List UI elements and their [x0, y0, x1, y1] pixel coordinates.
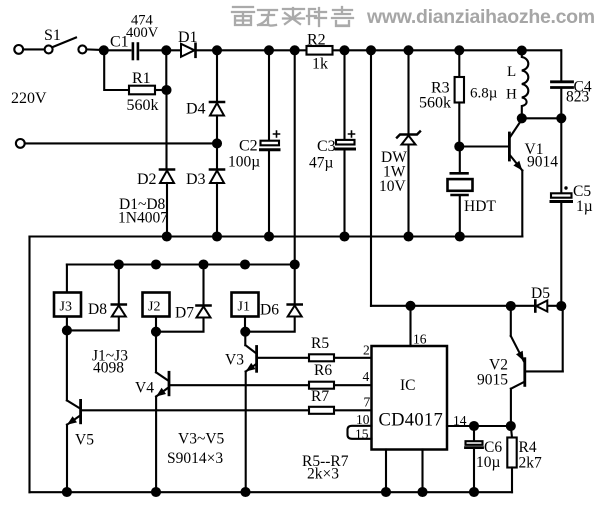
transistor V1 9014 — [508, 133, 511, 160]
diode D1 — [166, 49, 561, 51]
svg-text:D4: D4 — [186, 101, 206, 118]
node D1-D4 — [213, 46, 221, 54]
svg-text:100µ: 100µ — [228, 154, 260, 171]
svg-text:V3~V5: V3~V5 — [178, 431, 225, 448]
resistor R3 — [458, 50, 460, 77]
IC bottom pins — [385, 450, 387, 492]
svg-text:C3: C3 — [317, 138, 336, 155]
resistor R1 — [104, 52, 129, 90]
svg-text:D1: D1 — [178, 29, 198, 46]
svg-text:10: 10 — [356, 412, 370, 427]
bottom rail — [30, 491, 513, 493]
svg-text:CD4017: CD4017 — [379, 411, 444, 431]
svg-text:R4: R4 — [519, 439, 537, 456]
svg-text:J3: J3 — [60, 300, 72, 315]
vertical bypass x=371 down to D5 wire — [370, 50, 372, 305]
svg-text:R5: R5 — [311, 335, 329, 352]
svg-text:560k: 560k — [419, 95, 451, 112]
diode D3 — [210, 168, 224, 171]
terminal top-left — [14, 45, 23, 54]
svg-text:2k7: 2k7 — [519, 455, 543, 472]
diode D4 — [210, 101, 224, 104]
crystal HDT — [459, 147, 461, 173]
svg-text:823: 823 — [566, 89, 590, 106]
svg-text:www.dianziaihaozhe.com: www.dianziaihaozhe.com — [366, 6, 595, 28]
svg-text:1k: 1k — [312, 56, 328, 73]
resistor R5 row — [257, 357, 372, 359]
svg-text:S1: S1 — [44, 27, 61, 44]
relay J2 — [143, 293, 170, 317]
left tall wire — [28, 237, 30, 493]
wire L/C4 bottom — [522, 117, 562, 119]
D5 wire y=306 — [371, 305, 561, 307]
svg-text:4098: 4098 — [93, 360, 124, 377]
svg-text:560k: 560k — [127, 97, 159, 114]
transistor V3 — [244, 332, 246, 346]
svg-text:15: 15 — [355, 427, 369, 442]
svg-text:9015: 9015 — [477, 372, 508, 389]
relay rail y=264.5 — [67, 263, 295, 265]
node pin14/C6 — [470, 422, 478, 430]
svg-text:J2: J2 — [148, 300, 160, 315]
capacitor C2 (electrolytic) — [268, 50, 270, 140]
relay J1 — [232, 293, 259, 317]
IC CD4017 box — [372, 346, 448, 450]
svg-text:2: 2 — [363, 343, 370, 358]
svg-text:10µ: 10µ — [476, 454, 501, 471]
svg-text:7: 7 — [364, 395, 371, 410]
svg-text:1N4007: 1N4007 — [118, 210, 168, 227]
svg-text:R2: R2 — [307, 32, 326, 49]
svg-text:D5: D5 — [531, 285, 550, 302]
pin10-15 loop — [348, 426, 372, 439]
mid rail y=236.5 — [30, 235, 523, 237]
svg-text:400V: 400V — [126, 25, 159, 41]
svg-text:IC: IC — [400, 377, 416, 394]
svg-text:V4: V4 — [135, 380, 154, 397]
svg-text:C2: C2 — [239, 138, 258, 155]
transistor V5 — [79, 400, 82, 422]
node neutral-D4D3 — [213, 139, 221, 147]
diode D7 — [202, 265, 204, 305]
resistor R6 row — [169, 384, 372, 386]
switch S1 — [45, 45, 53, 53]
inductor L — [522, 51, 529, 118]
terminal 2 — [16, 139, 25, 148]
svg-text:D8: D8 — [88, 301, 107, 318]
svg-text:9014: 9014 — [527, 154, 558, 171]
wire neutral input — [25, 142, 217, 144]
svg-text:R7: R7 — [311, 388, 329, 405]
diode D5 — [534, 301, 537, 312]
svg-text:H: H — [506, 87, 517, 103]
header fake chinese glyphs — [232, 7, 353, 26]
svg-text:V3: V3 — [225, 352, 244, 369]
svg-text:220V: 220V — [11, 90, 47, 107]
wire — [23, 48, 44, 50]
transistor V4 — [168, 372, 171, 395]
svg-text:HDT: HDT — [464, 198, 496, 215]
node at C1 left — [100, 46, 108, 54]
diode D2 — [160, 168, 174, 171]
capacitor C5 (electrolytic) — [560, 118, 562, 193]
resistor R2 — [307, 46, 333, 55]
svg-text:10V: 10V — [379, 178, 407, 195]
svg-text:S9014×3: S9014×3 — [167, 450, 223, 467]
svg-text:4: 4 — [363, 369, 370, 384]
capacitor C1 — [104, 49, 131, 51]
vertical x=217 with D4, D3 — [216, 50, 218, 101]
node C1 right — [162, 46, 170, 54]
relay J3 — [54, 293, 81, 317]
svg-text:47µ: 47µ — [309, 155, 334, 172]
svg-text:R1: R1 — [132, 70, 151, 87]
svg-text:D6: D6 — [260, 302, 279, 319]
svg-text:V5: V5 — [75, 432, 94, 449]
resistor R7 row — [81, 409, 372, 411]
capacitor C3 (electrolytic) — [343, 50, 345, 140]
diode D6 — [288, 303, 302, 306]
transistor V2 9015 — [510, 306, 512, 336]
vertical feeder x=294.7 to relay rail and D6 — [294, 50, 296, 303]
svg-text:L: L — [507, 64, 516, 80]
svg-text:D2: D2 — [137, 171, 157, 188]
wire — [87, 48, 104, 51]
diode D8 — [118, 265, 120, 304]
svg-text:D7: D7 — [175, 305, 194, 322]
svg-text:J1: J1 — [238, 300, 250, 315]
svg-text:D3: D3 — [186, 171, 206, 188]
svg-text:1µ: 1µ — [576, 198, 593, 215]
capacitor C6 — [473, 426, 475, 441]
pin 14 wire — [447, 425, 511, 427]
svg-text:14: 14 — [453, 413, 467, 428]
vertical x=167 with diode D2 — [165, 50, 167, 168]
capacitor C4 — [560, 50, 562, 81]
zener DW — [407, 50, 409, 133]
resistor R4 — [511, 426, 512, 438]
svg-text:16: 16 — [413, 332, 427, 347]
node R1 right — [163, 86, 171, 94]
svg-text:2k×3: 2k×3 — [307, 466, 339, 483]
pin 16 — [409, 306, 411, 346]
svg-text:6.8µ: 6.8µ — [470, 86, 498, 102]
svg-text:R6: R6 — [314, 362, 332, 379]
